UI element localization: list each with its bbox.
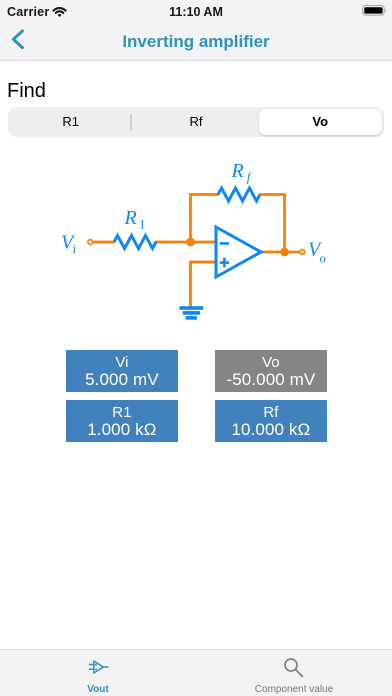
svg-text:R: R xyxy=(124,207,137,229)
wire: feedback right vertical to output node xyxy=(283,195,286,253)
label Vi xyxy=(61,232,77,257)
wire: non-inverting input to ground branch xyxy=(191,262,217,307)
node A: junction of R1, Rf and inverting input xyxy=(186,238,195,247)
svg-text:o: o xyxy=(320,251,327,266)
label R1 xyxy=(124,207,146,232)
wire: feedback left vertical xyxy=(189,195,192,243)
label Vo xyxy=(308,239,326,266)
ground xyxy=(180,306,204,320)
op-amp non-inverting pin mark xyxy=(220,258,229,268)
svg-text:f: f xyxy=(247,170,253,185)
wire: input terminal to R1 xyxy=(94,241,116,244)
op-amp U1 xyxy=(216,227,261,277)
svg-text:R: R xyxy=(231,160,244,182)
op-amp inverting pin mark xyxy=(220,242,229,245)
resistor Rf xyxy=(218,188,260,201)
input terminal Vi xyxy=(88,240,93,245)
label Rf xyxy=(231,160,253,185)
svg-text:i: i xyxy=(73,241,77,256)
wire: op-amp output to Vo terminal xyxy=(261,251,300,254)
resistor R1 xyxy=(114,236,156,249)
output terminal Vo xyxy=(300,250,305,255)
node B: output junction xyxy=(280,248,289,257)
wire: feedback top right horizontal xyxy=(259,193,286,196)
wire: R1 to op-amp inverting input xyxy=(155,241,216,244)
wire: feedback top left horizontal xyxy=(189,193,219,196)
svg-text:1: 1 xyxy=(139,217,146,232)
